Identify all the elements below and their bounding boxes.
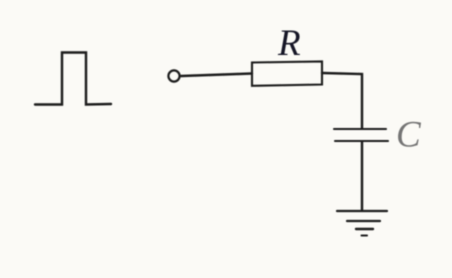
svg-text:C: C bbox=[396, 115, 422, 156]
svg-text:R: R bbox=[277, 23, 301, 64]
